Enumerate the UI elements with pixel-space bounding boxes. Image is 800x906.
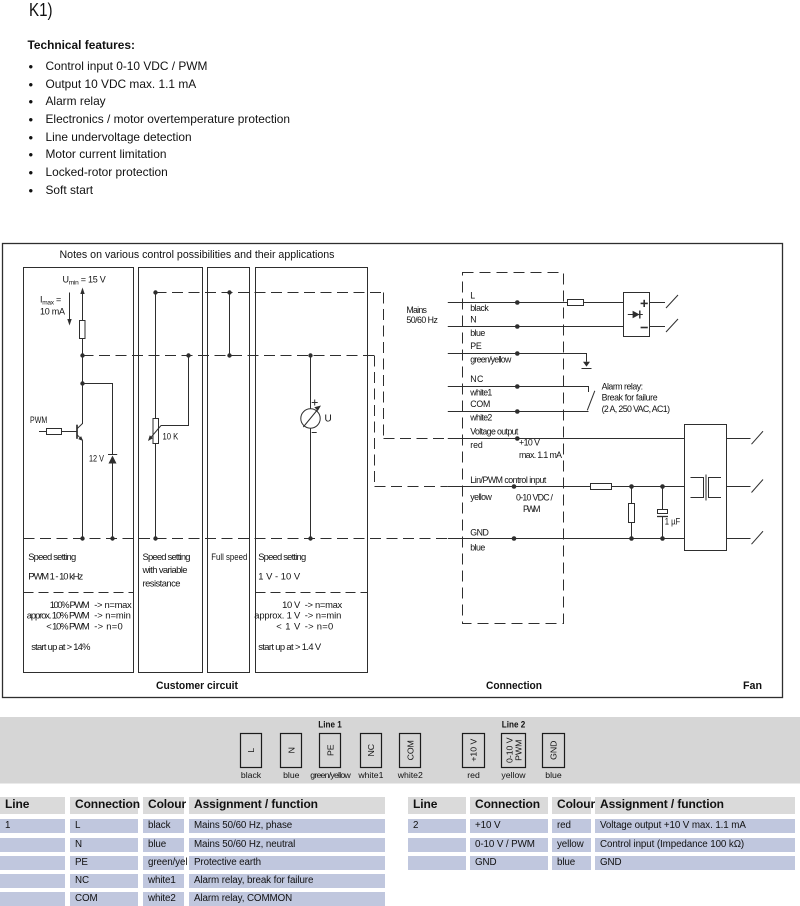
terminal GND text [549, 741, 559, 760]
right table header [408, 797, 466, 814]
label N / blue [470, 315, 485, 338]
wire COM [448, 411, 589, 413]
rectifier output bottom wire [650, 326, 666, 328]
bullet list [29, 58, 291, 199]
svg-text:Fan: Fan [743, 680, 762, 692]
terminal +10V text [469, 739, 479, 762]
svg-text:10 V: 10 V [282, 599, 301, 610]
node dot collector [80, 381, 84, 385]
fuse F1 [568, 300, 624, 306]
terminal +10V [463, 734, 485, 768]
svg-text:-> n=min: -> n=min [94, 610, 131, 621]
label Umin = 15 V [63, 275, 106, 287]
svg-text:1 V - 10 V: 1 V - 10 V [258, 571, 301, 582]
panel 1 divider dashed [24, 592, 134, 594]
label PWM [30, 415, 47, 425]
dashed gnd bus [24, 538, 448, 540]
rectifier output top wire [650, 302, 666, 304]
rectifier output bottom slash [666, 319, 678, 332]
svg-text:with variable: with variable [142, 564, 188, 575]
colour label black [241, 770, 262, 780]
node dot GND [512, 536, 517, 541]
panel3 full speed wire [229, 293, 231, 356]
transistor Q1 [77, 424, 83, 442]
left table row 2 [0, 838, 65, 852]
svg-text:Connection: Connection [486, 680, 542, 692]
svg-text:0-10 VDC /: 0-10 VDC / [516, 493, 554, 503]
rectifier U1 [624, 293, 650, 337]
label +10V max 1.1mA [519, 438, 562, 461]
svg-text:PWM: PWM [514, 740, 524, 761]
node dot N [515, 324, 520, 329]
terminal NC text [366, 744, 376, 757]
plus mark [312, 400, 318, 406]
node dot NC [515, 384, 520, 389]
node dot pot top bus1 [153, 290, 157, 294]
fan block [685, 425, 727, 551]
dashed bus1 to red wire [384, 438, 448, 440]
svg-text:Speed setting: Speed setting [28, 551, 76, 562]
svg-text:-> n=0: -> n=0 [94, 621, 123, 632]
fan motor symbol [691, 475, 722, 501]
node dot COM [515, 409, 520, 414]
svg-text:blue: blue [470, 328, 485, 338]
svg-text:Full speed: Full speed [211, 551, 247, 562]
fan output wire top [727, 438, 751, 440]
wire NC [448, 387, 589, 393]
wire control input yellow [448, 486, 591, 488]
label L / black [470, 291, 489, 314]
dashed bus1 horizontal (+10V feed) [156, 292, 384, 294]
wire node to zener branch [83, 384, 113, 455]
svg-text:white2: white2 [469, 412, 492, 422]
svg-text:< 1 V: < 1 V [276, 621, 301, 632]
label Voltage output / red [470, 427, 519, 450]
svg-text:Speed setting: Speed setting [258, 551, 306, 562]
svg-text:white2: white2 [397, 770, 423, 780]
panel 4 caption texts [254, 551, 342, 652]
voltage source U [301, 406, 321, 429]
label Lin/PWM control input / yellow [470, 475, 547, 502]
panel 2 caption texts [142, 551, 191, 588]
node dot PE [515, 351, 520, 356]
rectifier minus mark [641, 327, 648, 329]
svg-text:start up at > 14%: start up at > 14% [31, 641, 90, 652]
svg-text:white1: white1 [357, 770, 383, 780]
Technical features heading [28, 39, 136, 51]
series resistor R4 [591, 484, 685, 490]
svg-text:100% PWM: 100% PWM [50, 599, 90, 610]
relay contact blade [587, 391, 595, 411]
svg-text:approx. 1 V: approx. 1 V [254, 610, 301, 621]
left table row 1 [0, 819, 65, 833]
svg-text:start up at > 1.4 V: start up at > 1.4 V [258, 641, 322, 652]
wire resistor to collector node [82, 339, 84, 425]
node dot source top bus2 [308, 353, 312, 357]
colour label blue2 [545, 770, 562, 780]
Connection label [486, 680, 542, 692]
capacitor C1 1uF [657, 487, 668, 539]
svg-text:COM: COM [470, 399, 490, 409]
wiper wire to bus2 [161, 356, 189, 426]
svg-text:Line 1: Line 1 [318, 720, 342, 730]
svg-text:Mains: Mains [406, 305, 427, 315]
svg-text:red: red [470, 440, 483, 450]
terminal L text [246, 748, 256, 753]
colour label green/yellow [310, 770, 351, 780]
svg-text:1 µF: 1 µF [665, 517, 681, 527]
wire GND blue [448, 538, 685, 540]
svg-text:red: red [467, 770, 480, 780]
panel2 wire bus1 to pot [155, 293, 157, 419]
left table row 5 [0, 892, 65, 906]
label Imax = 10 mA [40, 295, 65, 317]
wire L [448, 302, 568, 304]
panel 4 box (1-10V source) [256, 268, 368, 673]
fan output wire middle [727, 486, 751, 488]
svg-text:10 mA: 10 mA [40, 307, 65, 317]
svg-text:(2 A, 250 VAC, AC1): (2 A, 250 VAC, AC1) [602, 404, 670, 414]
svg-text:COM: COM [405, 740, 415, 760]
colour label white2 [397, 770, 423, 780]
svg-text:12 V: 12 V [89, 454, 104, 464]
terminal L [241, 734, 262, 768]
dashed bus2 to yellow wire [375, 486, 448, 488]
svg-text:L: L [470, 291, 475, 301]
svg-text:NC: NC [470, 374, 484, 384]
svg-text:-> n=max: -> n=max [305, 599, 343, 610]
svg-text:Break for failure: Break for failure [602, 392, 658, 402]
fan output middle slash [752, 480, 764, 493]
svg-text:+10 V: +10 V [469, 739, 479, 762]
terminal N [281, 734, 302, 768]
node dot L [515, 300, 520, 305]
svg-text:+10 V: +10 V [519, 438, 540, 448]
title: Notes on various control possibilities and their applications [60, 249, 335, 261]
right table row 1 [408, 819, 466, 833]
node dot red [515, 436, 520, 441]
svg-text:black: black [470, 303, 489, 313]
fan output bottom slash [752, 531, 764, 544]
svg-text:blue: blue [470, 543, 485, 553]
potentiometer R3 10K [148, 419, 161, 444]
earth ground symbol [582, 362, 592, 369]
node dot pot gnd [153, 536, 157, 540]
node dot zener/gnd [110, 536, 114, 540]
svg-text:Voltage output: Voltage output [470, 427, 519, 437]
svg-text:resistance: resistance [143, 577, 181, 588]
svg-text:10 K: 10 K [163, 432, 179, 442]
svg-text:approx. 10% PWM: approx. 10% PWM [27, 610, 90, 621]
terminal strip band [0, 717, 800, 784]
panel 2 box (variable resistance) [139, 268, 203, 673]
supply wire with up arrow [80, 288, 84, 321]
fan output wire bottom [727, 538, 751, 540]
terminal COM text [405, 740, 415, 760]
svg-text:Imax =: Imax = [40, 295, 61, 307]
Fan label [743, 680, 762, 692]
terminal COM [400, 734, 421, 768]
svg-text:-> n=min: -> n=min [305, 610, 342, 621]
svg-text:green/yellow: green/yellow [470, 354, 512, 364]
node dot source gnd [308, 536, 312, 540]
alarm relay note [602, 381, 670, 414]
svg-text:NC: NC [366, 744, 376, 757]
svg-text:PE: PE [326, 744, 336, 756]
terminal GND [543, 734, 565, 768]
svg-text:Umin = 15 V: Umin = 15 V [63, 275, 106, 287]
svg-text:max. 1.1 mA: max. 1.1 mA [519, 450, 562, 460]
zener diode D1 12V [108, 455, 117, 539]
label NC / white1 [469, 374, 492, 397]
node dot emitter/gnd [80, 536, 84, 540]
svg-text:PWM: PWM [523, 504, 541, 514]
Imax down arrow [67, 293, 71, 326]
rectifier plus mark [641, 300, 648, 307]
dashed bus2 vertical [374, 356, 376, 487]
label 10 K [163, 432, 179, 442]
svg-text:Speed setting: Speed setting [143, 551, 191, 562]
emitter wire to ground bus [82, 440, 84, 538]
node dot cap junction [660, 484, 665, 489]
dashed connection box [463, 273, 564, 624]
node dot C1 gnd [660, 536, 665, 541]
svg-text:L: L [246, 748, 256, 753]
label COM / white2 [469, 399, 492, 422]
node dot full speed bottom [227, 353, 231, 357]
svg-text:green/yellow: green/yellow [310, 770, 351, 780]
minus mark [312, 432, 317, 434]
panel4 wire bus2 to source [310, 356, 312, 409]
wire PE [448, 354, 587, 362]
svg-text:white1: white1 [469, 387, 492, 397]
node dot wiper bus2 [186, 353, 190, 357]
colour label yellow [501, 770, 526, 780]
label U [325, 414, 332, 425]
svg-text:-> n=0: -> n=0 [305, 621, 334, 632]
node dot R5 gnd [629, 536, 634, 541]
panel 1 box (PWM circuit) [24, 268, 134, 673]
dashed bus1 vertical [383, 293, 385, 439]
svg-text:PWM 1 - 10 kHz: PWM 1 - 10 kHz [28, 571, 83, 582]
wire voltage output red [448, 438, 685, 440]
svg-text:yellow: yellow [470, 492, 492, 502]
Line 1 label [318, 720, 342, 730]
node dot bus2 panel1 [80, 353, 84, 357]
right table row 3 [408, 856, 466, 870]
outer frame of notes box [3, 244, 783, 698]
pot bottom wire to gnd [155, 444, 157, 539]
svg-text:Notes on various control possi: Notes on various control possibilities a… [60, 249, 335, 261]
svg-text:black: black [241, 770, 262, 780]
panel 1 caption texts [27, 551, 132, 652]
svg-text:-> n=max: -> n=max [94, 599, 132, 610]
terminal 0-10V PWM [502, 734, 526, 768]
svg-text:blue: blue [545, 770, 562, 780]
rectifier diode symbol [628, 311, 643, 319]
svg-text:PWM: PWM [30, 415, 47, 425]
panel 4 divider dashed [256, 592, 368, 594]
svg-text:U: U [325, 414, 332, 425]
label PE / green-yellow [470, 341, 512, 364]
svg-text:PE: PE [470, 341, 482, 351]
right table row 2 [408, 838, 466, 852]
node dot yellow [512, 484, 517, 489]
panel 3 caption text [211, 551, 247, 562]
label GND / blue [470, 528, 489, 553]
source bottom wire to gnd [310, 428, 312, 538]
colour label blue [283, 770, 300, 780]
dashed bus2 horizontal (control feed) [83, 355, 375, 357]
rectifier output top slash [666, 295, 678, 308]
svg-text:< 10% PWM: < 10% PWM [46, 621, 90, 632]
node dot full speed top [227, 290, 231, 294]
label Mains 50/60 Hz [406, 305, 438, 325]
colour label red [467, 770, 480, 780]
wire resistor to base [62, 431, 78, 433]
fan output top slash [752, 431, 764, 444]
svg-text:blue: blue [283, 770, 300, 780]
left table header [0, 797, 65, 814]
svg-text:Lin/PWM control input: Lin/PWM control input [470, 475, 547, 485]
shunt resistor R5 [629, 487, 635, 539]
PWM input stub [39, 431, 47, 433]
svg-text:N: N [286, 747, 296, 753]
panel 3 box (full speed) [208, 268, 250, 673]
terminal N text [286, 747, 296, 753]
wire N [448, 326, 624, 328]
svg-text:GND: GND [470, 528, 489, 538]
Line 2 label [502, 720, 526, 730]
label 0-10 VDC / PWM [516, 493, 554, 514]
heading K1) [29, 1, 53, 19]
resistor R1 (supply) [80, 321, 86, 339]
svg-text:Line 2: Line 2 [502, 720, 526, 730]
svg-text:50/60 Hz: 50/60 Hz [406, 315, 438, 325]
label 1 uF [665, 517, 681, 527]
base resistor R2 [47, 429, 62, 435]
colour label white1 [357, 770, 383, 780]
svg-text:Alarm relay:: Alarm relay: [602, 381, 644, 391]
left table row 3 [0, 856, 65, 870]
svg-text:GND: GND [549, 741, 559, 760]
svg-text:Customer circuit: Customer circuit [156, 680, 238, 692]
svg-text:yellow: yellow [501, 770, 526, 780]
left table row 4 [0, 874, 65, 888]
label 12 V [89, 454, 104, 464]
terminal PE text [326, 744, 336, 756]
terminal PE [320, 734, 341, 768]
node dot R4/R5 junction [629, 484, 634, 489]
svg-text:N: N [470, 315, 476, 325]
terminal NC [361, 734, 382, 768]
Customer circuit label [156, 680, 238, 692]
terminal 0-10V PWM text [505, 737, 524, 763]
